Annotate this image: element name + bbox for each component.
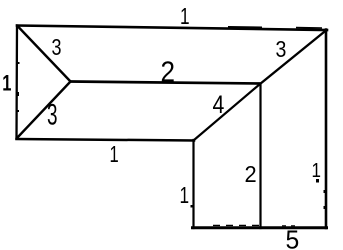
valley line H-E bbox=[194, 84, 260, 140]
scan artifact dashes above bottom edge bbox=[213, 224, 262, 226]
svg-text:4: 4 bbox=[213, 90, 225, 118]
svg-text:3: 3 bbox=[52, 35, 62, 61]
scan artifact dashes above top edge bbox=[228, 26, 262, 29]
hip line H-B bbox=[260, 30, 327, 84]
svg-text:2: 2 bbox=[245, 161, 257, 187]
outline top edge A-B bbox=[17, 26, 327, 31]
svg-text:3: 3 bbox=[276, 37, 287, 63]
outline left edge A-F bbox=[15, 26, 18, 139]
label 1 right edge lower dot bbox=[316, 179, 319, 183]
label 1 inner vertical bbox=[180, 184, 190, 209]
outline inner vertical edge E-D bbox=[192, 140, 194, 228]
ridge line G-H bbox=[71, 82, 261, 84]
svg-text:1: 1 bbox=[110, 142, 119, 167]
svg-text:2: 2 bbox=[161, 55, 176, 88]
hip line F-G bbox=[17, 82, 71, 139]
ridge vertical H-bottom bbox=[259, 84, 261, 228]
outline bottom edge D-C bbox=[193, 226, 327, 229]
label 1 right edge bbox=[312, 159, 321, 182]
svg-text:1: 1 bbox=[312, 159, 321, 182]
svg-text:1: 1 bbox=[180, 184, 190, 209]
label 1 left bbox=[2, 71, 11, 96]
label 4 valley bbox=[213, 90, 225, 118]
outline right edge B-C bbox=[325, 30, 328, 229]
label 3 top-right hip bbox=[276, 37, 287, 63]
svg-text:5: 5 bbox=[286, 226, 300, 250]
label 3 lower-left hip bbox=[47, 98, 58, 132]
label 2 vertical ridge bbox=[245, 161, 257, 187]
label 1 bottom-left bbox=[110, 142, 119, 167]
svg-text:3: 3 bbox=[47, 98, 58, 132]
scan artifact ticks on right edge bbox=[324, 190, 326, 193]
scan artifact ticks on left edge bbox=[17, 62, 20, 64]
label 1 top bbox=[180, 5, 190, 30]
hip line A-G bbox=[18, 26, 71, 82]
scan artifact ticks on inner vertical bbox=[191, 205, 194, 208]
svg-text:1: 1 bbox=[180, 5, 190, 30]
label 3 upper-left hip bbox=[52, 35, 62, 61]
outline bottom-left edge F-E bbox=[17, 139, 195, 141]
svg-text:1: 1 bbox=[2, 71, 11, 96]
label 5 bottom bbox=[286, 226, 300, 250]
label 2 ridge bbox=[161, 55, 176, 88]
